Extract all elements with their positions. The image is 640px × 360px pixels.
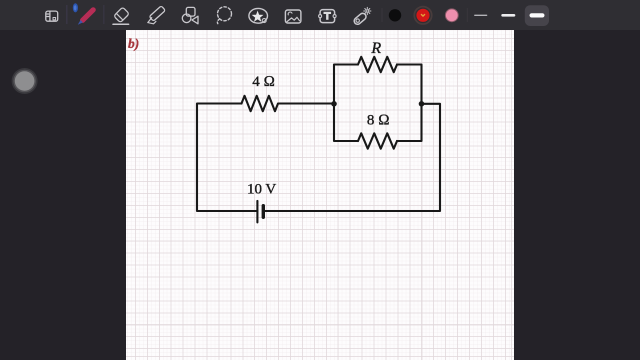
svg-text:4 Ω: 4 Ω [252, 74, 275, 90]
svg-text:8 Ω: 8 Ω [367, 113, 390, 129]
svg-text:R: R [370, 40, 381, 57]
svg-text:b): b) [128, 36, 139, 51]
svg-text:10 V: 10 V [247, 181, 276, 197]
